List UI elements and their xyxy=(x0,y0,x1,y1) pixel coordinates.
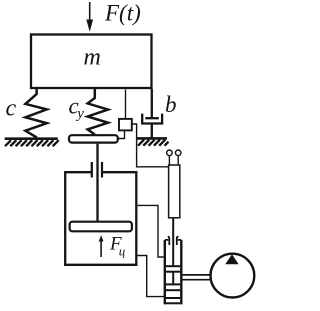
force arrow F(t) xyxy=(89,2,91,26)
ground under spring c xyxy=(5,137,58,140)
spool rod segment xyxy=(172,272,174,285)
gland ticks xyxy=(91,162,93,178)
spool land 1 xyxy=(166,265,180,267)
piston xyxy=(70,222,132,232)
roller left xyxy=(167,150,173,156)
svg-text:ц: ц xyxy=(119,244,126,259)
sleeve cylinder xyxy=(169,165,180,218)
valve right wall xyxy=(180,240,182,304)
svg-text:c: c xyxy=(6,96,17,122)
valve bottom band xyxy=(166,297,180,299)
spool rod xyxy=(172,218,174,266)
svg-text:y: y xyxy=(75,106,84,122)
arrow F_c xyxy=(100,240,102,257)
spring c xyxy=(25,89,46,138)
wire mass to square xyxy=(125,90,127,119)
mass m xyxy=(31,35,152,89)
spring c_y xyxy=(88,89,108,135)
pipe to pump xyxy=(183,274,212,276)
ground under damper xyxy=(137,137,167,140)
piston rod xyxy=(96,144,98,222)
hydraulic cylinder body xyxy=(65,172,136,265)
plate under spring c_y xyxy=(69,135,118,142)
svg-text:b: b xyxy=(165,92,177,117)
spool land 2 xyxy=(166,283,180,285)
pipe lower xyxy=(136,256,163,297)
valve left wall xyxy=(164,240,166,304)
pump triangle xyxy=(225,254,238,264)
sensor square xyxy=(119,119,132,130)
wire square to sleeve cylinder xyxy=(132,124,168,167)
roller stems xyxy=(168,156,170,165)
pipe upper xyxy=(136,205,163,257)
valve top hooks xyxy=(165,240,169,242)
svg-text:m: m xyxy=(84,45,101,71)
damper b xyxy=(151,89,153,118)
svg-text:F(t): F(t) xyxy=(104,1,141,26)
pump xyxy=(211,254,255,298)
roller right xyxy=(175,150,181,156)
wire square to plate xyxy=(118,130,125,138)
